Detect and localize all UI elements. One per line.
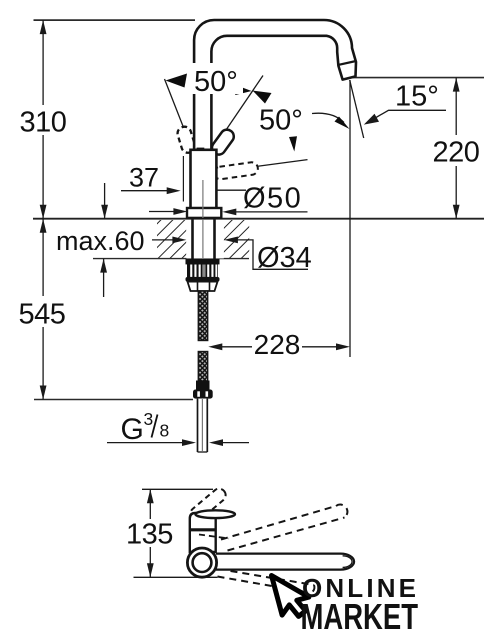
handle axis line (dashed lever axis)	[257, 160, 308, 167]
center line through body	[202, 180, 204, 218]
svg-text:50°: 50°	[194, 66, 238, 98]
center line	[202, 180, 204, 341]
counter bottom line	[93, 258, 249, 260]
dashed lever position (view 1)	[213, 161, 258, 180]
handle hub notch	[197, 148, 205, 152]
spout aerator joint line	[339, 61, 356, 65]
dimension 310	[20, 20, 67, 219]
svg-text:220: 220	[433, 137, 480, 169]
svg-text:50°: 50°	[259, 105, 303, 137]
countertop hatch left	[157, 220, 186, 258]
max.60 dimension arrows	[100, 183, 108, 297]
angle 50 second arc with arrow	[312, 113, 350, 129]
svg-text:8: 8	[160, 421, 170, 441]
svg-text:3: 3	[144, 409, 154, 429]
countertop hatch right	[224, 220, 249, 258]
bottom reference line 545	[34, 399, 193, 401]
dimension 545	[19, 219, 66, 400]
lower view lever ellipse	[195, 510, 235, 518]
svg-text:Ø50: Ø50	[243, 183, 302, 215]
angle 50 second arc arrow start (bowtie right)	[253, 91, 272, 104]
right lever	[209, 127, 236, 157]
svg-text:135: 135	[126, 519, 173, 551]
svg-text:MARKET: MARKET	[301, 596, 419, 637]
lower view hidden lever dashes	[199, 535, 229, 539]
braided hose upper	[198, 291, 207, 341]
dimension G3/8	[107, 409, 249, 446]
top reference line	[34, 19, 196, 21]
connection tube	[198, 399, 208, 452]
dimension 228	[208, 329, 350, 360]
lower view spout tube inner cap	[343, 556, 353, 568]
dimension 15 leader	[364, 81, 446, 125]
angle line A (left lever axis)	[165, 79, 185, 130]
hose end ferrule	[196, 381, 210, 391]
lower view base outer circle	[187, 548, 216, 577]
mounting nut	[186, 259, 220, 291]
body	[191, 150, 217, 208]
angle line B (right lever axis)	[226, 76, 263, 131]
phantom left lever	[176, 125, 197, 154]
threaded shank	[186, 220, 223, 260]
lower view dashed lever	[188, 486, 229, 523]
svg-text:228: 228	[254, 329, 301, 360]
top right reference line	[352, 77, 484, 79]
slanted 15 degree line	[350, 80, 364, 138]
dimension O50 left arrow	[149, 208, 187, 215]
angle 50 label first	[190, 63, 243, 98]
dimension 220	[433, 78, 481, 219]
svg-text:G: G	[121, 413, 144, 446]
lower view base inner circle	[193, 553, 212, 572]
lower view spout tube	[216, 554, 354, 570]
deck line	[33, 218, 484, 220]
lower view dashed spout down position	[218, 571, 315, 594]
lower view body band	[190, 528, 216, 531]
dimension 37	[121, 156, 183, 202]
spout outline	[194, 20, 356, 151]
dimension O50 label	[222, 183, 307, 216]
logo cursor	[272, 568, 313, 621]
svg-text:37: 37	[129, 163, 159, 193]
braided hose lower	[198, 352, 207, 382]
dimension 135	[126, 489, 217, 577]
lower view dashed spout up position	[221, 505, 347, 551]
angle 50 first arc arrow right (bowtie left)	[231, 83, 252, 95]
dimension O50 upper leader	[202, 187, 246, 194]
lower view body	[190, 513, 216, 552]
svg-text:545: 545	[19, 299, 66, 331]
G3/8 connector nut	[193, 390, 213, 399]
svg-text:max.60: max.60	[56, 226, 145, 256]
base flange	[187, 208, 221, 218]
svg-text:Ø34: Ø34	[257, 242, 312, 274]
angle 50 first arc arrow left	[166, 74, 188, 88]
vertical line from spout outlet	[349, 80, 351, 357]
dimension O34	[152, 237, 312, 274]
svg-text:310: 310	[20, 107, 67, 139]
svg-text:15°: 15°	[395, 81, 439, 113]
angle arrow down on handle axis	[289, 136, 297, 151]
